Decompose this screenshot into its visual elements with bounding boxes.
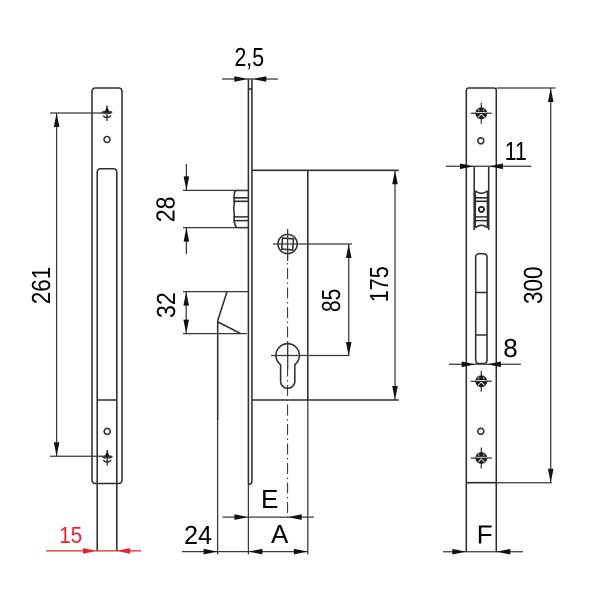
body right edge extension to A	[307, 400, 309, 555]
dimension 28 extension lines	[183, 190, 248, 227]
svg-text:261: 261	[26, 267, 56, 305]
right view faceplate outline	[466, 88, 496, 552]
dimension 28 arrows	[185, 164, 187, 254]
left view inner slot contour	[97, 169, 117, 551]
left view top screw symbol	[101, 106, 112, 122]
svg-text:15: 15	[59, 522, 82, 548]
euro cylinder hole	[271, 342, 349, 389]
right view bottom hole	[478, 428, 484, 434]
dimension 15 red line	[46, 550, 141, 552]
right view top screw	[471, 103, 492, 124]
svg-text:11: 11	[505, 136, 527, 166]
faceplate lower extension line	[247, 485, 249, 555]
svg-text:85: 85	[316, 289, 346, 312]
slot divider lines	[476, 293, 487, 336]
svg-text:F: F	[477, 519, 493, 549]
dimension 32 extension lines	[183, 292, 248, 334]
left view top hole	[104, 137, 110, 143]
left view bottom screw leader	[50, 455, 103, 457]
spindle square hole	[273, 229, 352, 261]
svg-text:24: 24	[184, 520, 212, 550]
dimension 8 line	[449, 363, 521, 365]
300 bottom extension line (plate bottom)	[466, 482, 496, 484]
roller channel lines	[474, 167, 489, 230]
left view faceplate outline	[92, 88, 122, 484]
dimension 85 line	[348, 244, 350, 356]
dimension 300 line	[550, 88, 552, 483]
svg-text:A: A	[271, 519, 289, 549]
dimension 261 line	[56, 113, 58, 456]
svg-text:E: E	[261, 484, 278, 514]
lock body outline	[252, 169, 399, 171]
left view bottom hole	[104, 428, 110, 434]
dimension 32 line	[185, 292, 187, 334]
hook front edge extension to 24	[217, 420, 219, 555]
300 top extension line	[497, 87, 556, 89]
dimension E line	[223, 516, 315, 518]
left view slot bottom line	[97, 399, 117, 401]
roller latch side view	[233, 191, 248, 228]
left view top screw leader	[50, 112, 103, 114]
dimension 175 line	[394, 170, 396, 400]
dimension 11 line	[446, 165, 531, 167]
right view middle screw	[471, 371, 492, 392]
right view bottom screw	[471, 448, 492, 469]
dimension F line	[443, 551, 523, 553]
right view top hole	[478, 138, 484, 144]
svg-text:28: 28	[150, 197, 180, 223]
dimension 2,5 line	[222, 78, 278, 80]
faceplate slot	[476, 254, 487, 364]
centerline dash-dot	[287, 229, 289, 520]
svg-text:175: 175	[364, 266, 394, 302]
svg-text:8: 8	[503, 333, 517, 363]
faceplate edge-on	[247, 80, 249, 485]
svg-text:2,5: 2,5	[235, 42, 265, 72]
svg-text:32: 32	[151, 292, 181, 318]
svg-text:300: 300	[518, 267, 548, 305]
hook bolt	[218, 292, 227, 321]
roller front view	[475, 191, 489, 228]
dimension 24/A line	[182, 551, 308, 553]
left view bottom screw symbol	[102, 450, 113, 466]
